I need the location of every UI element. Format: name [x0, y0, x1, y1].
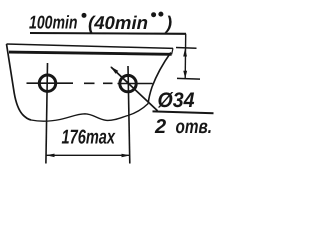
svg-text:): ): [164, 12, 172, 33]
label asterisk dot 3: [158, 12, 163, 17]
svg-text:(40min: (40min: [88, 12, 148, 33]
hole 1 vertical centerline / extension line: [46, 63, 48, 164]
svg-text:176max: 176max: [62, 126, 116, 148]
svg-text:100min: 100min: [29, 12, 78, 33]
leader line to hole 2: [111, 67, 158, 111]
part top edge right end: [172, 48, 173, 54]
vertical dimension line: [184, 34, 187, 79]
arrow left 176max: [46, 154, 55, 158]
arrow up on vertical dimension: [183, 49, 187, 57]
part left edge: [7, 44, 32, 120]
part right edge: [148, 53, 171, 104]
svg-text:отв.: отв.: [176, 116, 213, 138]
arrow down on vertical dimension: [183, 71, 187, 79]
extension tick top edge level: [176, 47, 197, 50]
dimension 100min leader shelf: [30, 32, 186, 35]
hole 2 circle: [120, 75, 136, 91]
svg-text:2: 2: [154, 116, 166, 138]
part top edge lower thick line: [9, 52, 172, 54]
hole 1 circle: [39, 75, 55, 91]
svg-text:Ø34: Ø34: [158, 89, 195, 112]
arrow right 176max: [122, 154, 131, 158]
leader shelf under diameter label: [153, 111, 214, 113]
part top edge upper line: [7, 44, 174, 48]
part bottom wavy edge: [31, 104, 148, 122]
extension tick hole axis level: [177, 77, 200, 80]
dimension line 176max: [46, 154, 129, 156]
hole axis centerline right solid: [118, 83, 153, 85]
leader arrowhead: [110, 66, 118, 73]
hole 2 vertical centerline / extension line: [128, 66, 130, 164]
label asterisk dot 2: [151, 12, 156, 17]
hole axis centerline dashes: [84, 82, 113, 84]
label asterisk dot 1: [82, 13, 87, 18]
hole axis centerline left solid: [27, 82, 74, 84]
